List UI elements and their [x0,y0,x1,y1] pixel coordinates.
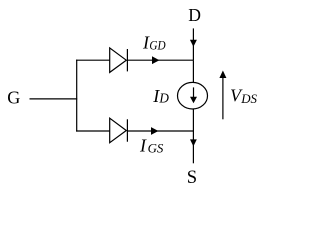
svg-text:S: S [187,167,197,188]
wire node D to current source top [192,60,194,82]
current arrow out of source node [190,139,197,146]
voltage arrow V_DS [222,75,224,119]
wire source lead [192,131,194,163]
wire top horizontal anode segment [76,59,110,61]
wire current source bottom to node S [192,109,194,131]
wire bottom horizontal anode segment [76,130,110,132]
svg-text:G: G [7,88,20,108]
svg-text:D: D [188,5,201,25]
current arrow I_GS [151,127,158,135]
current arrow I_GD [152,56,159,64]
svg-text:DS: DS [240,92,257,106]
svg-text:GS: GS [148,142,164,156]
diode gate-drain [110,48,128,73]
wire drain lead [192,28,194,60]
svg-text:D: D [158,91,169,106]
svg-text:I: I [139,136,147,156]
diode gate-source [110,118,128,143]
wire bottom horizontal cathode segment [127,130,193,132]
svg-text:GD: GD [149,39,166,53]
wire top horizontal cathode segment [127,59,193,61]
current arrow into drain node [190,40,197,47]
current source inner arrow [193,87,195,97]
wire left vertical bus [76,60,78,132]
wire gate lead [30,98,78,100]
current source I_D circle [178,82,208,109]
